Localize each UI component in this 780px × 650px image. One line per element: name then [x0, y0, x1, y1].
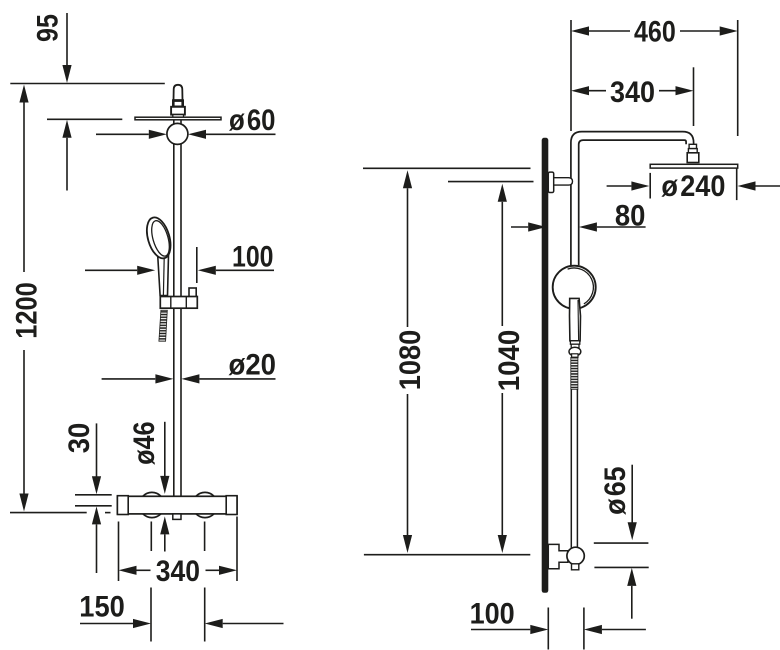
hand shower handle (side)	[570, 298, 581, 340]
overhead shower disc (edge view)	[135, 117, 221, 120]
shower arm outer contour	[571, 132, 694, 266]
hose smooth section	[570, 389, 572, 548]
hand shower hose (ribbed, front)	[159, 310, 167, 341]
hose swivel ball	[569, 347, 581, 356]
dimension o46 lower arrow	[160, 516, 169, 534]
svg-text:100: 100	[232, 240, 274, 273]
wall (mounting surface)	[542, 138, 549, 593]
extension line body top	[75, 494, 112, 496]
holder outlet	[572, 564, 579, 570]
slider bracket hook	[189, 288, 196, 298]
dimension 1200 line with arrows	[23, 103, 25, 273]
extension lines below valve	[150, 522, 152, 552]
dimension o240	[649, 173, 651, 199]
svg-text:340: 340	[156, 555, 200, 588]
slider bracket bar	[160, 297, 197, 309]
svg-text:460: 460	[634, 16, 676, 49]
o65 extension bottom	[594, 566, 648, 568]
dimension 100 arrows (hand shower)	[85, 269, 137, 271]
knob base	[173, 115, 184, 118]
extension line body bottom (1200 ref)	[10, 512, 87, 514]
handle end ring	[570, 341, 579, 344]
o65 extension top	[594, 542, 649, 544]
svg-text:340: 340	[610, 76, 655, 109]
head connector nut	[687, 153, 699, 163]
reference line supply (1040)	[448, 181, 534, 183]
supply pin	[554, 178, 573, 185]
hose ribbed section (side)	[571, 357, 578, 389]
top diverter knob	[174, 85, 183, 100]
svg-text:95: 95	[32, 14, 65, 42]
dimension 460 line	[571, 26, 589, 35]
dimension 95 lower arrow	[62, 120, 71, 138]
extension line valve axis	[75, 505, 112, 507]
reference line top (1080)	[363, 167, 531, 169]
arm end rings	[689, 144, 696, 148]
svg-text:ø 60: ø 60	[229, 104, 276, 137]
reference line bottom holder	[364, 554, 530, 556]
outlet below body	[173, 514, 181, 520]
dimension o60 arrows	[96, 133, 149, 135]
svg-text:ø 240: ø 240	[661, 170, 725, 203]
dimension 460 extension left	[570, 20, 572, 131]
hand shower handle (front)	[158, 252, 169, 296]
dimension o46 upper arrow	[164, 422, 166, 476]
svg-text:80: 80	[615, 199, 646, 232]
overhead shower disc (side view)	[650, 164, 738, 168]
svg-text:ø46: ø46	[128, 421, 161, 465]
dimension 100 (wall to hand shower)	[471, 629, 530, 631]
hand shower head (front)	[143, 215, 175, 261]
svg-text:150: 150	[79, 590, 125, 623]
knob collar nut	[171, 107, 185, 115]
dimension 460 extension right	[737, 20, 739, 136]
svg-text:1080: 1080	[394, 330, 427, 391]
top reference line (top of column)	[10, 83, 165, 85]
svg-text:100: 100	[470, 598, 515, 631]
dimension o65 lower arrow	[627, 568, 636, 586]
svg-text:1200: 1200	[11, 282, 44, 339]
svg-text:ø 65: ø 65	[599, 466, 632, 515]
riser pipe (side view) upper part drawn via arm contour; slider circle	[553, 266, 596, 309]
dimension 95 upper arrow	[66, 13, 68, 66]
dimension 80	[511, 226, 528, 228]
thermostat body	[117, 496, 237, 514]
dimension 1080	[403, 170, 412, 188]
ball joint o60	[167, 123, 188, 144]
reference line at shower head plate	[47, 118, 122, 120]
dimension 30 lower arrow	[92, 506, 101, 524]
dimension 340 extension	[693, 67, 695, 126]
dimension 30 upper arrow	[96, 423, 98, 476]
svg-text:ø20: ø20	[229, 349, 277, 382]
dimension 150 (connection centers)	[150, 588, 152, 642]
thermostat left cap	[117, 496, 128, 515]
svg-text:1040: 1040	[493, 330, 526, 392]
dimension 340 line	[571, 86, 589, 95]
riser pipe (front view)	[173, 120, 175, 497]
thermostat right cap	[226, 496, 237, 515]
dimension o20 arrows	[102, 378, 156, 380]
thermostat knob left	[139, 492, 164, 517]
hose holder knob o65	[567, 547, 584, 564]
knob ring	[173, 101, 182, 107]
dimension 340 (valve width)	[119, 566, 137, 575]
shower arm inner contour	[579, 140, 686, 265]
dimension o65 upper arrow	[631, 465, 633, 523]
dimension 100 extension lines	[547, 608, 549, 650]
wall bracket lower	[548, 544, 568, 568]
dimension 1040	[498, 184, 507, 202]
svg-text:30: 30	[63, 423, 96, 454]
thermostat knob right	[192, 492, 217, 517]
wall bracket upper	[548, 172, 553, 192]
